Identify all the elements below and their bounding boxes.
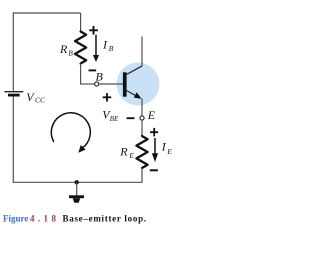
wire node E to RE: [141, 120, 143, 136]
KVL loop arrow: [51, 113, 90, 153]
minus sign above node B: [89, 69, 97, 71]
transistor emitter diagonal with arrow: [126, 90, 142, 98]
label B: [96, 70, 104, 84]
wire RB bottom stub: [80, 64, 82, 85]
wire left from battery to bottom: [12, 96, 14, 182]
svg-text:R: R: [119, 144, 128, 158]
wire top from Vcc to RB: [13, 12, 80, 14]
wire bottom: [13, 181, 143, 183]
svg-text:I: I: [161, 140, 167, 154]
wire base left segment: [80, 83, 94, 85]
minus sign below IE: [150, 169, 158, 171]
label VCC: [26, 90, 46, 105]
plus sign above IE: [150, 128, 158, 136]
svg-text:R: R: [59, 42, 68, 56]
wire left from top to battery: [12, 12, 14, 91]
label E: [147, 108, 156, 122]
plus sign below base wire: [103, 93, 112, 102]
ground symbol: [69, 195, 84, 203]
svg-text:Figure4.18Base–emitter loop.: Figure4.18Base–emitter loop.: [3, 214, 147, 224]
label VBE: [102, 107, 119, 123]
current arrow IE: [152, 138, 158, 162]
label RE: [119, 144, 134, 159]
label IE: [161, 140, 173, 156]
ground junction dot: [75, 180, 79, 184]
wire ground stub: [76, 182, 78, 195]
svg-text:E: E: [166, 147, 172, 156]
caption Figure 4.18 Base-emitter loop: [3, 214, 147, 224]
node E: [140, 116, 144, 120]
svg-text:E: E: [147, 108, 156, 122]
transistor collector diagonal: [126, 66, 142, 75]
battery VCC: [4, 92, 23, 95]
label RB: [59, 42, 73, 57]
plus sign above IB: [89, 26, 98, 35]
wire collector vertical: [141, 37, 143, 67]
transistor Q base bar: [123, 72, 127, 96]
transistor highlight circle: [117, 63, 160, 106]
svg-text:BE: BE: [110, 116, 119, 123]
svg-text:B: B: [68, 48, 73, 57]
svg-text:I: I: [102, 38, 108, 52]
wire RE bottom stub: [141, 168, 143, 182]
svg-text:B: B: [96, 70, 104, 84]
label IB: [102, 38, 114, 53]
resistor RE: [136, 136, 147, 168]
svg-text:CC: CC: [35, 95, 46, 104]
svg-text:E: E: [128, 151, 134, 160]
current arrow IB: [93, 35, 99, 62]
node B: [95, 82, 99, 86]
wire base right segment: [99, 83, 123, 85]
wire emitter to node E: [141, 99, 143, 116]
wire RB top stub: [80, 13, 82, 32]
resistor RB: [75, 32, 86, 64]
svg-text:V: V: [26, 90, 35, 104]
minus sign left of node E: [127, 117, 135, 119]
svg-text:B: B: [109, 44, 114, 53]
